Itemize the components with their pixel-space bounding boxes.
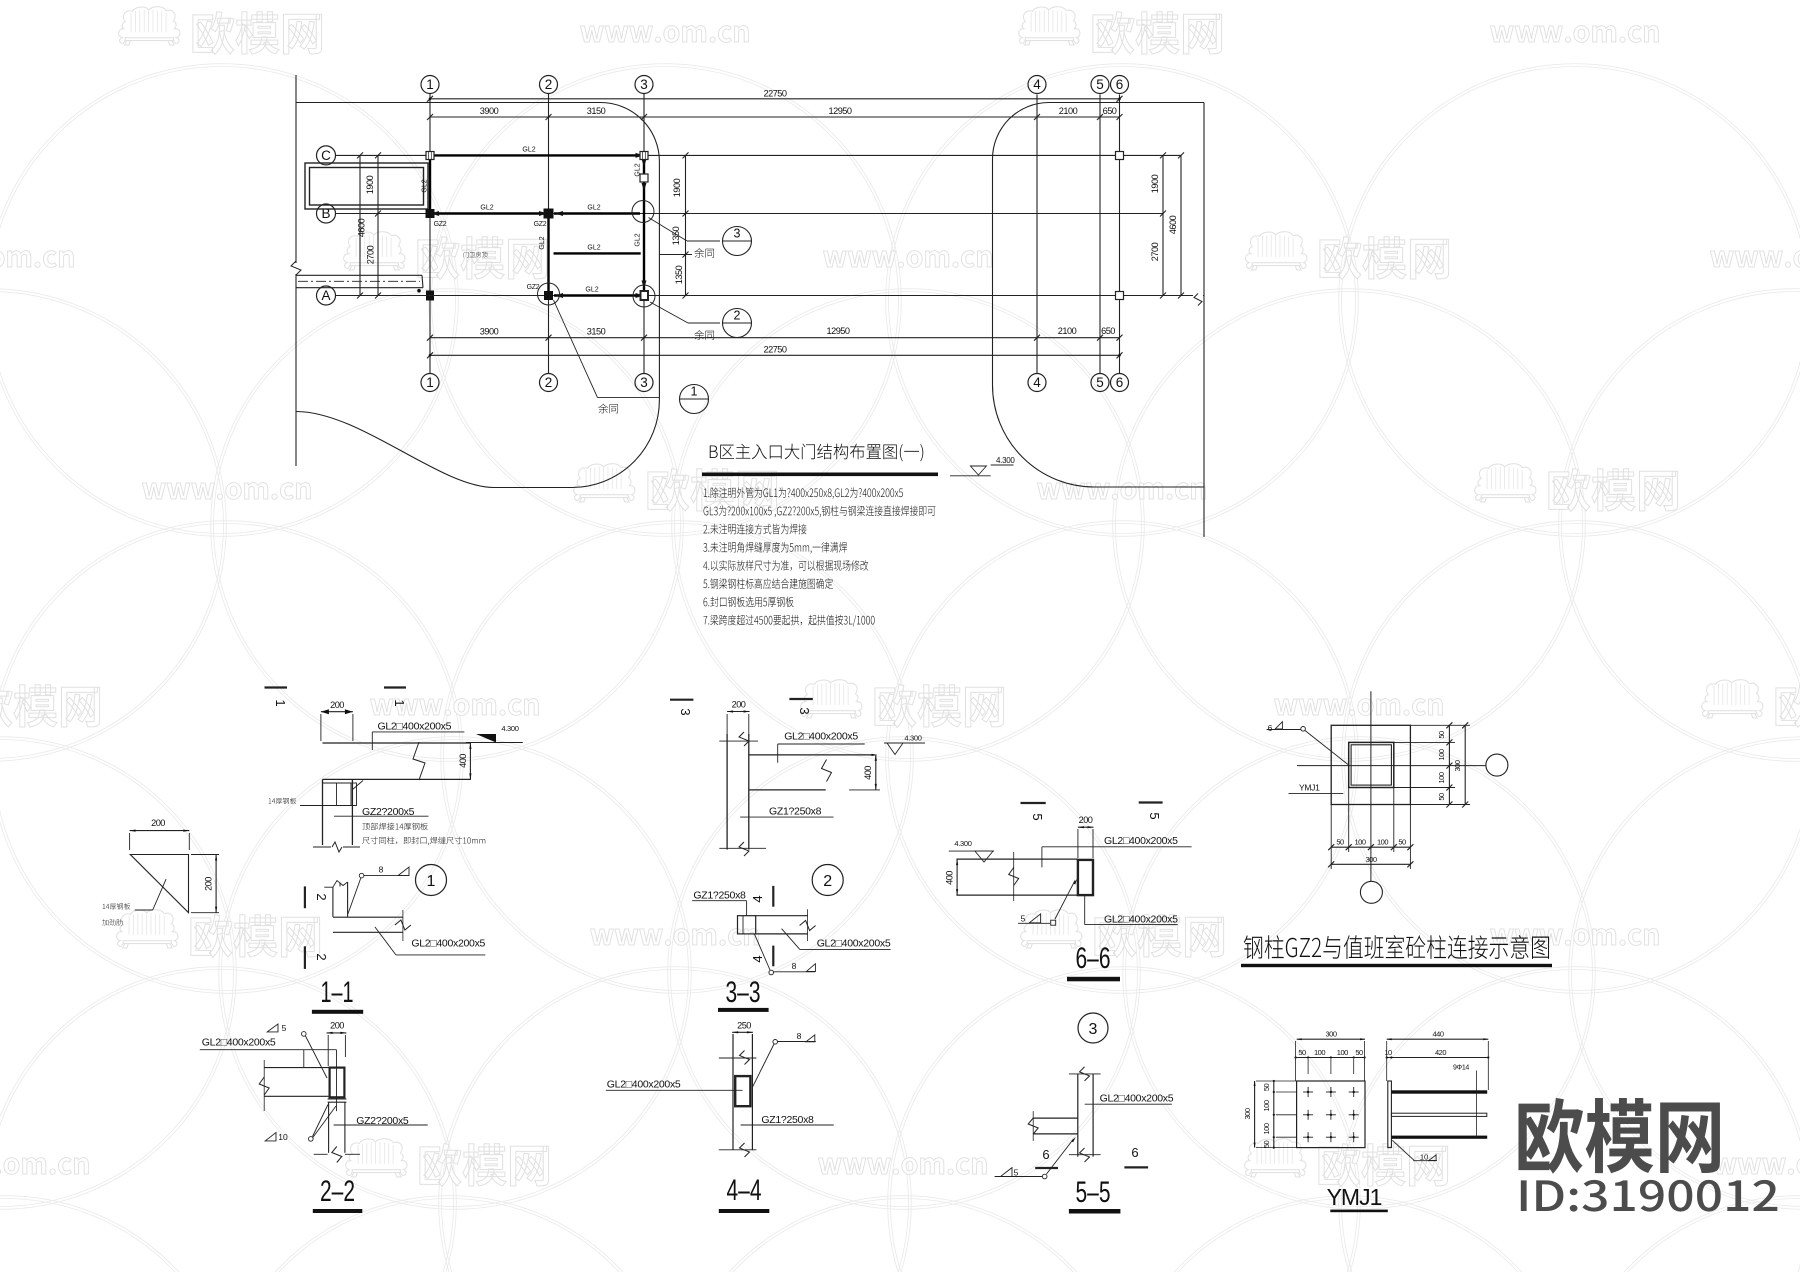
svg-text:5: 5 xyxy=(1096,77,1104,92)
stiffener plate triangle xyxy=(130,855,188,913)
column break top xyxy=(719,740,758,742)
beam break left xyxy=(263,1060,265,1111)
svg-text:10: 10 xyxy=(1384,1048,1392,1057)
svg-text:6–6: 6–6 xyxy=(1076,942,1111,975)
svg-text:GL2□400x200x5: GL2□400x200x5 xyxy=(607,1079,681,1091)
dim 200 right xyxy=(215,855,217,913)
break bottom xyxy=(1069,1154,1101,1156)
svg-text:1900: 1900 xyxy=(672,178,682,197)
svg-text:GL2: GL2 xyxy=(539,236,546,249)
svg-text:8: 8 xyxy=(797,1031,802,1041)
svg-text:3: 3 xyxy=(678,708,693,715)
om.cn big logo text xyxy=(1518,1098,1719,1174)
svg-text:4: 4 xyxy=(1033,77,1041,92)
dimension line 3900/3150/12950/2100/650 bottom xyxy=(430,337,1120,339)
label 14mm plate xyxy=(269,798,297,804)
svg-text:420: 420 xyxy=(1435,1048,1446,1057)
svg-text:GZ2: GZ2 xyxy=(534,221,547,228)
column node axis1-A (filled double) xyxy=(426,291,434,296)
section cut marks 1 xyxy=(265,686,288,688)
beam GL2 on axis3 C-A (thick vertical) xyxy=(643,157,645,293)
road curb with rounded island edge (left) xyxy=(296,103,659,488)
svg-text:3900: 3900 xyxy=(480,106,499,116)
svg-text:6: 6 xyxy=(1131,1145,1138,1160)
svg-text:9Φ14: 9Φ14 xyxy=(1453,1065,1469,1072)
node square axis3 y178 xyxy=(640,174,648,182)
top dim 300 xyxy=(1297,1038,1365,1040)
axis 1 grid line xyxy=(429,94,431,374)
svg-text:12950: 12950 xyxy=(828,106,851,116)
svg-text:650: 650 xyxy=(1101,326,1115,336)
svg-text:400: 400 xyxy=(458,754,468,768)
beam break xyxy=(1013,852,1015,901)
beam GL2 bottom flange xyxy=(956,894,1078,896)
svg-text:6: 6 xyxy=(1116,77,1124,92)
axis A bubble and line xyxy=(317,286,336,305)
svg-text:GZ2: GZ2 xyxy=(434,221,447,228)
anchor cross grid xyxy=(1303,1091,1313,1093)
column GZ2 end (thick rect) xyxy=(1078,860,1093,895)
node square axis1-C xyxy=(426,152,434,160)
svg-text:YMJ1: YMJ1 xyxy=(1299,783,1320,793)
svg-text:5: 5 xyxy=(282,1023,287,1033)
svg-text:2700: 2700 xyxy=(1150,242,1160,261)
svg-text:1: 1 xyxy=(273,699,288,706)
plan sub-detail: GZ1 column square xyxy=(738,916,756,934)
dim 200 xyxy=(727,711,750,713)
beam GL2 plan flanges xyxy=(756,915,808,917)
text yutong 3 xyxy=(694,248,714,258)
svg-text:6: 6 xyxy=(1116,375,1124,390)
weld 5 mark xyxy=(1001,1168,1013,1177)
left dims 4600 / 1900 2700 xyxy=(359,155,361,295)
svg-text:22750: 22750 xyxy=(763,344,786,354)
dim 400 xyxy=(956,859,958,895)
svg-text:GL2: GL2 xyxy=(422,179,429,192)
axis 4 grid line xyxy=(1036,95,1038,374)
svg-text:400: 400 xyxy=(863,766,873,780)
weld 10 mark xyxy=(265,1133,276,1141)
top dims 50/100/100/50 xyxy=(1295,1057,1365,1059)
svg-text:6: 6 xyxy=(1042,1147,1049,1162)
svg-text:3150: 3150 xyxy=(587,106,606,116)
svg-text:200: 200 xyxy=(330,700,344,710)
column GZ2 node axis2-A (filled) xyxy=(544,291,553,300)
horizontal centerline xyxy=(1297,765,1486,767)
svg-text:GZ1?250x8: GZ1?250x8 xyxy=(761,1114,814,1126)
svg-text:4.300: 4.300 xyxy=(996,456,1015,465)
GZ2 connection title xyxy=(1244,935,1549,959)
detail circle at axis2-A node xyxy=(538,283,560,305)
dim 200 xyxy=(321,711,353,713)
svg-text:GZ1?250x8: GZ1?250x8 xyxy=(693,890,746,902)
svg-text:50: 50 xyxy=(1355,1048,1363,1057)
axis bubble 6 bottom xyxy=(1111,374,1129,392)
svg-text:GL2□400x200x5: GL2□400x200x5 xyxy=(1100,1093,1174,1105)
axis bubble right (empty) xyxy=(1486,754,1508,776)
svg-text:50: 50 xyxy=(1336,838,1344,847)
notes text block xyxy=(704,487,903,499)
svg-text:300: 300 xyxy=(1325,1030,1336,1039)
leader to detail 1 xyxy=(554,300,598,398)
bottom dims 50/100/100/50 xyxy=(1331,846,1410,848)
svg-text:440: 440 xyxy=(1432,1030,1443,1039)
svg-text:4.300: 4.300 xyxy=(501,724,518,733)
detail circle at axis3-A node xyxy=(633,285,655,307)
dim 200 top xyxy=(130,830,190,832)
beam GL2 section box (thick) xyxy=(735,1076,750,1106)
right dims near axis3: 1900 1350 1350 xyxy=(685,155,687,295)
svg-text:C: C xyxy=(321,148,331,163)
svg-text:3: 3 xyxy=(1089,1021,1098,1038)
svg-text:4600: 4600 xyxy=(357,218,367,237)
svg-text:4600: 4600 xyxy=(1168,215,1178,234)
axis 6 grid line xyxy=(1119,95,1121,374)
dim 400 xyxy=(875,755,877,790)
svg-text:3: 3 xyxy=(734,227,741,241)
svg-text:200: 200 xyxy=(151,818,165,828)
svg-text:2–2: 2–2 xyxy=(320,1175,355,1208)
left dims 50/100/100/50 xyxy=(1273,1081,1275,1148)
beam break left xyxy=(1032,1111,1034,1141)
weld 8 mark xyxy=(773,1040,778,1045)
svg-text:5–5: 5–5 xyxy=(1076,1176,1111,1209)
dimension line 22750 top xyxy=(430,98,1120,100)
dim 400 xyxy=(469,743,471,779)
svg-text:1: 1 xyxy=(426,77,434,92)
svg-text:GL2□400x200x5: GL2□400x200x5 xyxy=(411,938,485,950)
axis bubble 5 top xyxy=(1091,76,1109,94)
section cut marks 5 xyxy=(1021,802,1046,804)
svg-text:1: 1 xyxy=(691,385,698,399)
axis 3 grid line xyxy=(643,94,645,374)
beam GL2 top flange xyxy=(956,858,1078,860)
axis bubble 5 bottom xyxy=(1091,374,1109,392)
detail mark 3 xyxy=(1078,1013,1108,1043)
title underline xyxy=(1241,964,1552,967)
guard lane wall below (double line with centerline) xyxy=(296,274,422,276)
svg-text:2: 2 xyxy=(314,893,329,900)
axis bubble 1 bottom xyxy=(421,374,439,392)
svg-text:10: 10 xyxy=(1420,1153,1428,1162)
top dim extension lines xyxy=(1295,1041,1297,1081)
svg-text:A: A xyxy=(321,288,330,303)
svg-text:B: B xyxy=(321,206,330,221)
beam break xyxy=(822,760,832,782)
leader below to GL2 label xyxy=(1084,895,1086,925)
side dims 10/420 xyxy=(1387,1057,1489,1059)
svg-text:100: 100 xyxy=(1337,1048,1348,1057)
left dim 300 xyxy=(1254,1081,1256,1148)
svg-text:50: 50 xyxy=(1398,838,1406,847)
weld 5 mark xyxy=(267,1024,278,1032)
axis bubble 2 top xyxy=(540,76,558,94)
right dim extension lines xyxy=(1410,724,1470,726)
cap plates double line xyxy=(328,1098,347,1100)
svg-text:GL2□400x200x5: GL2□400x200x5 xyxy=(784,731,858,743)
svg-text:5: 5 xyxy=(1014,1168,1019,1178)
svg-text:2100: 2100 xyxy=(1058,326,1077,336)
column GL2 verticals xyxy=(1077,1074,1079,1157)
svg-text:5: 5 xyxy=(1030,813,1045,820)
vertical centerline xyxy=(1370,691,1372,881)
svg-text:300: 300 xyxy=(1243,1108,1252,1119)
svg-text:3: 3 xyxy=(640,375,648,390)
section cut marks 3 xyxy=(670,699,693,701)
svg-text:GL2□400x200x5: GL2□400x200x5 xyxy=(378,721,452,733)
axis 5 grid line xyxy=(1099,95,1101,374)
svg-text:4: 4 xyxy=(750,955,765,962)
text yutong 2 xyxy=(694,330,714,340)
plate horizontal flange xyxy=(333,916,403,918)
svg-text:200: 200 xyxy=(1079,815,1093,825)
svg-text:5: 5 xyxy=(1021,914,1026,924)
left dim extension lines xyxy=(1256,1080,1297,1082)
svg-text:1900: 1900 xyxy=(365,175,375,194)
embedded plate square xyxy=(1297,1081,1365,1148)
svg-text:4–4: 4–4 xyxy=(727,1174,762,1207)
column GZ2 upper (thick rect) xyxy=(330,1068,345,1098)
beam GL2 bottom flange xyxy=(323,778,471,780)
svg-text:1350: 1350 xyxy=(671,226,681,245)
svg-text:2: 2 xyxy=(545,375,553,390)
svg-text:50: 50 xyxy=(1262,1141,1271,1149)
svg-text:100: 100 xyxy=(1377,838,1388,847)
column GZ1 verticals xyxy=(726,734,728,850)
beam GL2 mid bay 2-3 (thick) xyxy=(554,252,641,254)
svg-text:GL2□400x200x5: GL2□400x200x5 xyxy=(1104,835,1178,847)
svg-text:4.300: 4.300 xyxy=(904,734,921,743)
svg-text:2100: 2100 xyxy=(1059,106,1078,116)
column cap plate xyxy=(323,782,352,784)
svg-text:GZ1?250x8: GZ1?250x8 xyxy=(769,806,822,818)
detail mark 1 xyxy=(680,385,709,414)
beam break xyxy=(807,909,809,941)
node square axis6-A xyxy=(1116,292,1124,300)
side top dim 440 xyxy=(1387,1038,1489,1040)
svg-text:300: 300 xyxy=(1453,760,1462,771)
gate house wall (double rectangle) xyxy=(305,163,428,209)
road curb island (right) xyxy=(993,103,1205,488)
svg-text:50: 50 xyxy=(1437,793,1446,801)
axis A extension with break xyxy=(1163,295,1193,297)
svg-text:3: 3 xyxy=(640,77,648,92)
svg-text:GL2: GL2 xyxy=(635,233,642,246)
column GZ1 verticals xyxy=(732,1034,734,1150)
svg-text:5: 5 xyxy=(1147,812,1162,819)
svg-text:3: 3 xyxy=(797,707,812,714)
svg-text:GL2□400x200x5: GL2□400x200x5 xyxy=(1104,914,1178,926)
svg-text:GL2: GL2 xyxy=(585,287,598,294)
detail mark 2 xyxy=(723,309,752,338)
beam GL2 top flange xyxy=(323,742,471,744)
axis C bubble and line xyxy=(317,146,336,165)
section marks 2 xyxy=(304,886,306,908)
svg-text:200: 200 xyxy=(330,1021,344,1031)
steel tube GZ2 double square xyxy=(1349,742,1394,787)
node square axis3-C xyxy=(640,152,648,160)
beam break symbol xyxy=(413,742,425,780)
axis bubble 3 top xyxy=(635,76,653,94)
label stiffener xyxy=(102,919,122,925)
section marks 4 xyxy=(772,886,774,907)
break top xyxy=(1069,1073,1101,1075)
beam GL2 axis B bay 1-2 (thick) xyxy=(434,212,544,214)
leader to detail 2 xyxy=(650,302,688,323)
break bottom xyxy=(719,1149,757,1151)
axis 2 grid line xyxy=(548,94,550,374)
guard room roof label xyxy=(464,252,488,258)
svg-text:1: 1 xyxy=(392,699,407,706)
svg-text:3–3: 3–3 xyxy=(726,976,761,1009)
svg-text:6: 6 xyxy=(1268,723,1273,733)
leader line xyxy=(135,909,153,911)
svg-text:200: 200 xyxy=(204,877,214,891)
svg-text:5: 5 xyxy=(1096,375,1104,390)
svg-text:50: 50 xyxy=(1262,1084,1271,1092)
svg-text:4: 4 xyxy=(750,895,765,902)
column break bottom xyxy=(313,846,331,848)
node square axis6-C xyxy=(1116,152,1124,160)
svg-text:2: 2 xyxy=(734,309,741,323)
svg-text:1350: 1350 xyxy=(674,265,684,284)
axis B bubble and line xyxy=(317,204,336,223)
column GZ2 node axis1-B (filled) xyxy=(426,209,435,218)
column GZ2 outline xyxy=(322,779,324,845)
column break bottom xyxy=(719,847,766,849)
svg-text:200: 200 xyxy=(732,700,746,710)
axis bubble 6 top xyxy=(1111,76,1129,94)
plate vertical xyxy=(332,887,334,917)
beam GL2 top flange xyxy=(749,754,873,756)
svg-text:GL2□400x200x5: GL2□400x200x5 xyxy=(202,1037,276,1049)
axis bubble 2 bottom xyxy=(540,374,558,392)
svg-text:50: 50 xyxy=(1437,731,1446,739)
svg-text:GL2: GL2 xyxy=(587,205,600,212)
svg-text:100: 100 xyxy=(1354,838,1365,847)
column GZ2 lower xyxy=(328,1102,330,1153)
break top xyxy=(719,1057,757,1059)
svg-text:3150: 3150 xyxy=(587,327,606,337)
detail mark 3 xyxy=(723,227,752,256)
svg-text:4: 4 xyxy=(1033,375,1041,390)
svg-text:12950: 12950 xyxy=(826,326,849,336)
svg-text:100: 100 xyxy=(1314,1048,1325,1057)
road right boundary xyxy=(1203,103,1205,538)
bottom dim extension lines xyxy=(1330,805,1332,870)
weld mark on cap xyxy=(352,781,363,791)
far right dims 1900 2700 / 4600 xyxy=(1162,155,1164,295)
main title xyxy=(710,444,924,462)
anchor bars side view xyxy=(1391,1090,1487,1093)
svg-text:10: 10 xyxy=(278,1132,288,1142)
svg-text:100: 100 xyxy=(1262,1100,1271,1111)
side dim extension lines xyxy=(1386,1041,1388,1081)
node open square axis3-A xyxy=(641,291,649,300)
svg-text:1: 1 xyxy=(427,873,436,890)
label 14mm plate xyxy=(103,903,131,909)
beam GL2 axis B bay 2-3 (thick) xyxy=(554,212,640,214)
side view plate xyxy=(1388,1081,1392,1148)
svg-text:250: 250 xyxy=(737,1021,751,1031)
axis bubble 3 bottom xyxy=(635,374,653,392)
axis bubble bottom (empty) xyxy=(1360,881,1382,903)
column break bottom xyxy=(314,1153,328,1155)
weld mark 8 xyxy=(769,970,774,975)
svg-text:400: 400 xyxy=(945,871,955,885)
concrete column square xyxy=(1331,725,1410,804)
detail mark 2 xyxy=(812,865,843,896)
svg-text:2: 2 xyxy=(314,953,329,960)
column beam GL2 on axis1 C-B (thick vertical) xyxy=(429,157,431,211)
svg-text:100: 100 xyxy=(1262,1123,1271,1134)
svg-text:1–1: 1–1 xyxy=(321,976,354,1009)
svg-text:650: 650 xyxy=(1103,106,1117,116)
axis bubble 1 top xyxy=(421,76,439,94)
svg-text:GL2: GL2 xyxy=(480,205,493,212)
right dims 50/100/100/50 xyxy=(1448,725,1450,804)
svg-text:50: 50 xyxy=(1298,1048,1306,1057)
axis bubble 4 bottom xyxy=(1028,374,1046,392)
svg-text:GL2: GL2 xyxy=(522,147,535,154)
svg-text:GL2: GL2 xyxy=(587,245,600,252)
svg-text:8: 8 xyxy=(792,961,797,971)
column beam GL2 on axis2 B-A (thick vertical) xyxy=(547,218,549,293)
svg-text:8: 8 xyxy=(379,865,384,875)
svg-text:2: 2 xyxy=(823,873,832,890)
bottom dim 300 xyxy=(1331,863,1410,865)
svg-text:3900: 3900 xyxy=(480,327,499,337)
svg-text:4.300: 4.300 xyxy=(954,839,971,848)
beam flanges from left xyxy=(1033,1117,1078,1119)
svg-text:YMJ1: YMJ1 xyxy=(1327,1184,1382,1210)
svg-text:1900: 1900 xyxy=(1150,174,1160,193)
svg-text:100: 100 xyxy=(1437,749,1446,760)
svg-text:2: 2 xyxy=(545,77,553,92)
svg-text:300: 300 xyxy=(1365,855,1376,864)
svg-text:1: 1 xyxy=(426,375,434,390)
site id text xyxy=(1521,1180,1778,1212)
title underline xyxy=(702,473,938,477)
weld mark 10 xyxy=(1392,1140,1414,1160)
leader to detail 3 xyxy=(649,218,688,242)
beam GL2 axis A bay 2-3 (thick) xyxy=(554,294,637,296)
beam GL2 bottom flange xyxy=(749,789,826,791)
svg-text:100: 100 xyxy=(1437,772,1446,783)
axis bubble 4 top xyxy=(1028,76,1046,94)
dimension line 3900/3150/12950/2100/650 top xyxy=(430,116,1120,118)
plate break right xyxy=(402,910,404,941)
svg-text:22750: 22750 xyxy=(763,88,786,98)
beam GL2 on axis C (thick) xyxy=(430,154,637,156)
dim 200 xyxy=(1078,826,1094,828)
beam GL2 flanges (left) xyxy=(264,1067,328,1069)
svg-text:2700: 2700 xyxy=(366,245,376,264)
svg-text:GL2□400x200x5: GL2□400x200x5 xyxy=(817,938,891,950)
detail circle at axis3-B node xyxy=(632,201,654,223)
column GZ2 node axis2-B (filled) xyxy=(544,209,554,219)
right dim 300 xyxy=(1464,725,1466,804)
site boundary left edge xyxy=(295,75,297,263)
detail circle 1 xyxy=(416,865,447,896)
text yutong 1 xyxy=(598,404,618,414)
dimension line 22750 bottom xyxy=(430,354,1120,356)
